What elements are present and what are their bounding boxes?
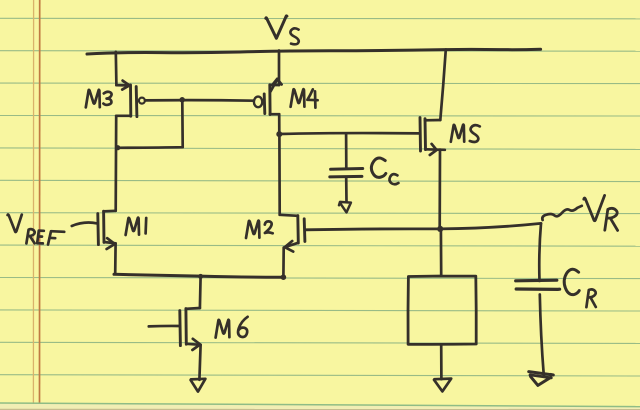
wire VREF to M1 gate <box>72 223 97 226</box>
wire M4 drain to node A <box>278 114 281 134</box>
label M1 <box>126 218 147 235</box>
net label VREF <box>8 214 65 244</box>
transistor M3 (PMOS) <box>116 81 145 117</box>
wire Vs rail to M3 source <box>114 52 117 85</box>
label M5 <box>451 125 480 142</box>
label Cc <box>371 158 398 184</box>
label CR <box>564 269 596 307</box>
junction M2 source dot <box>281 274 287 280</box>
net label Vs <box>266 16 299 44</box>
wire M2 gate to VR line <box>305 223 541 229</box>
junction node A dot <box>276 131 282 137</box>
wire VR node to load block <box>440 229 443 276</box>
ground Cc <box>339 202 351 213</box>
capacitor Cc <box>330 133 363 202</box>
load block <box>408 276 476 344</box>
transistor M2 (NMOS, mirrored) <box>280 215 305 252</box>
label M2 <box>246 221 273 238</box>
capacitor CR <box>516 223 560 375</box>
net label VR <box>584 195 618 230</box>
label M3 <box>86 90 112 108</box>
wire tail rail to M6 drain <box>199 276 202 308</box>
wire M3 drain to M1 drain <box>114 116 117 211</box>
transistor M5 (NMOS) <box>420 118 445 155</box>
ground CR <box>529 372 554 386</box>
junction VR node dot <box>437 226 443 232</box>
wire M6 source to ground <box>199 345 200 380</box>
wire VR squiggle <box>542 206 581 220</box>
junction M3 drain dot <box>115 145 120 150</box>
wire M6 gate lead <box>149 325 179 328</box>
wire gate node down to M3 drain (diode connection) <box>118 101 183 148</box>
junction gate node dot <box>179 97 185 103</box>
wire M2 source down to tail rail <box>282 248 285 277</box>
wire Vs rail to M5 drain <box>440 50 446 121</box>
margin lines <box>32 0 34 406</box>
wire node A to M5 gate <box>279 132 420 136</box>
ground M6 <box>191 379 206 392</box>
ground load block <box>434 379 451 392</box>
transistor M1 (NMOS) <box>98 211 116 249</box>
wire Vs rail to M4 source <box>278 51 281 86</box>
wire Vs supply rail <box>87 49 541 54</box>
wire M3 gate to M4 gate <box>145 99 254 102</box>
wire node A to M2 drain <box>278 134 281 215</box>
transistor M6 (NMOS) <box>180 308 201 350</box>
paper bottom edge <box>0 404 640 410</box>
transistor M4 (PMOS, mirrored) <box>254 79 282 115</box>
label M4 <box>291 89 318 107</box>
junction tail to M6 <box>198 274 203 279</box>
wire load block to ground <box>440 344 443 379</box>
wire M1 source down to tail rail <box>114 244 117 274</box>
wire tail rail <box>114 274 283 277</box>
wire M5 source to VR node <box>438 150 441 229</box>
label M6 <box>216 317 248 338</box>
